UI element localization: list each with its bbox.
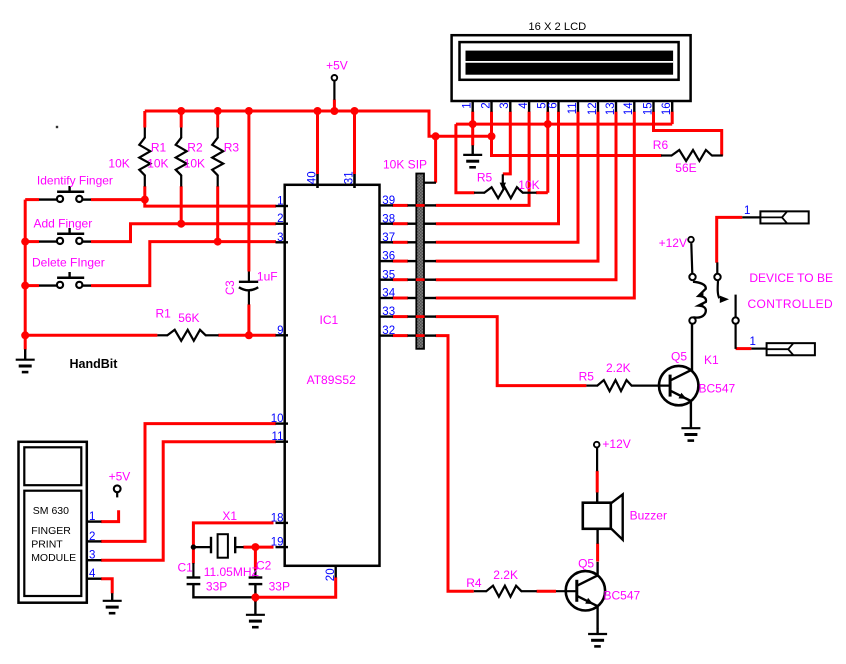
svg-text:1uF: 1uF xyxy=(257,269,278,283)
svg-text:R1: R1 xyxy=(151,141,167,155)
svg-text:40: 40 xyxy=(306,171,318,184)
svg-text:FINGER: FINGER xyxy=(31,525,71,537)
svg-text:4: 4 xyxy=(518,102,530,109)
svg-text:14: 14 xyxy=(623,102,635,115)
svg-text:11.05MHZ: 11.05MHZ xyxy=(204,565,259,579)
svg-text:+12V: +12V xyxy=(602,437,630,451)
svg-text:R5: R5 xyxy=(477,171,493,185)
svg-text:33P: 33P xyxy=(206,579,227,593)
svg-text:38: 38 xyxy=(382,213,395,225)
svg-text:1: 1 xyxy=(750,336,756,348)
svg-text:Identify Finger: Identify Finger xyxy=(37,174,113,188)
svg-text:HandBit: HandBit xyxy=(70,357,119,371)
svg-text:36: 36 xyxy=(382,251,395,263)
svg-text:SM 630: SM 630 xyxy=(33,505,69,517)
svg-text:20: 20 xyxy=(325,568,337,581)
svg-text:1: 1 xyxy=(462,102,474,108)
svg-text:4: 4 xyxy=(89,568,96,580)
svg-text:3: 3 xyxy=(277,232,283,244)
svg-text:1: 1 xyxy=(89,511,95,523)
svg-text:Delete FInger: Delete FInger xyxy=(32,255,105,269)
svg-text:35: 35 xyxy=(382,269,395,281)
svg-text:19: 19 xyxy=(271,537,284,549)
svg-text:11: 11 xyxy=(567,102,579,114)
svg-text:+5V: +5V xyxy=(109,469,131,483)
svg-text:56E: 56E xyxy=(675,161,696,175)
svg-text:3: 3 xyxy=(89,550,95,562)
svg-text:13: 13 xyxy=(605,102,617,115)
svg-text:BC547: BC547 xyxy=(604,588,641,602)
svg-text:1: 1 xyxy=(744,205,750,217)
svg-text:1: 1 xyxy=(277,196,283,208)
svg-text:R3: R3 xyxy=(224,141,240,155)
svg-text:56K: 56K xyxy=(178,311,199,325)
svg-text:2: 2 xyxy=(480,102,492,108)
svg-text:PRINT: PRINT xyxy=(31,538,63,550)
svg-text:9: 9 xyxy=(277,325,283,337)
svg-text:Buzzer: Buzzer xyxy=(630,509,667,523)
svg-text:Q5: Q5 xyxy=(578,557,594,571)
svg-text:X1: X1 xyxy=(222,509,237,523)
svg-text:R5: R5 xyxy=(579,369,595,383)
svg-text:32: 32 xyxy=(382,325,395,337)
svg-text:AT89S52: AT89S52 xyxy=(307,373,356,387)
svg-text:R1: R1 xyxy=(156,307,172,321)
svg-text:3: 3 xyxy=(499,102,511,108)
svg-text:10K: 10K xyxy=(147,156,168,170)
svg-text:10K: 10K xyxy=(184,156,205,170)
svg-text:R4: R4 xyxy=(466,576,482,590)
svg-text:10K SIP: 10K SIP xyxy=(383,158,427,172)
svg-text:CONTROLLED: CONTROLLED xyxy=(748,297,834,311)
svg-text:R6: R6 xyxy=(653,138,669,152)
svg-text:DEVICE TO BE: DEVICE TO BE xyxy=(749,271,833,285)
svg-text:K1: K1 xyxy=(704,353,719,367)
svg-text:10K: 10K xyxy=(108,156,129,170)
svg-text:2.2K: 2.2K xyxy=(606,361,631,375)
svg-text:BC547: BC547 xyxy=(699,381,736,395)
svg-text:Q5: Q5 xyxy=(671,349,687,363)
svg-text:2: 2 xyxy=(89,531,95,543)
svg-text:2: 2 xyxy=(277,213,283,225)
svg-text:31: 31 xyxy=(343,171,355,184)
svg-text:16 X 2 LCD: 16 X 2 LCD xyxy=(528,21,586,33)
svg-text:C1: C1 xyxy=(178,560,194,574)
svg-text:39: 39 xyxy=(382,195,395,207)
svg-text:12: 12 xyxy=(587,102,599,115)
svg-text:MODULE: MODULE xyxy=(31,552,76,564)
svg-text:33P: 33P xyxy=(269,579,290,593)
svg-text:18: 18 xyxy=(271,512,284,524)
svg-text:R2: R2 xyxy=(187,141,203,155)
svg-text:C3: C3 xyxy=(225,280,237,295)
svg-text:2.2K: 2.2K xyxy=(493,568,518,582)
svg-text:10: 10 xyxy=(271,413,284,425)
svg-text:11: 11 xyxy=(272,431,284,443)
svg-text:16: 16 xyxy=(661,102,673,115)
svg-text:34: 34 xyxy=(382,288,395,300)
svg-text:37: 37 xyxy=(382,232,395,244)
svg-text:+12V: +12V xyxy=(659,236,687,250)
svg-text:+5V: +5V xyxy=(326,59,348,73)
svg-text:33: 33 xyxy=(382,306,395,318)
svg-text:Add Finger: Add Finger xyxy=(34,216,93,230)
svg-text:10K: 10K xyxy=(518,178,539,192)
svg-text:15: 15 xyxy=(642,102,654,115)
svg-text:6: 6 xyxy=(547,102,559,108)
svg-text:IC1: IC1 xyxy=(320,313,339,327)
